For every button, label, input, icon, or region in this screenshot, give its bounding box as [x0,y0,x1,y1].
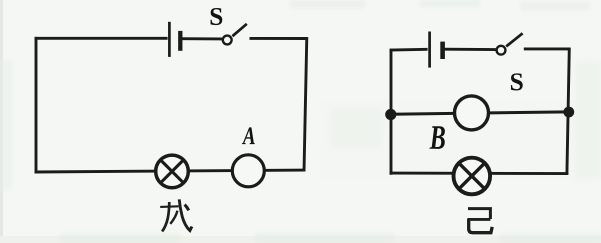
label A (meter designator) [242,127,255,144]
wire: middle branch with meter B [391,112,569,114]
lamp (right circuit, circle with X) [454,158,491,195]
label S (right switch) [511,73,523,90]
wire: right vertical side of left loop [304,37,307,171]
switch S (right): pivot circle [497,46,506,55]
wire: right vertical side of right loop [567,48,569,175]
wire: top-left segment from corner to battery [35,37,168,40]
node: right junction dot [563,107,574,118]
wire: battery to switch pivot [182,37,222,40]
wire: switch to top-right corner (right circuit) [524,47,570,50]
caption 戊 (drawn glyph) [160,199,192,231]
node: left junction dot [385,109,396,120]
battery cell: short thick (-) plate [178,31,182,51]
lamp (left circuit, circle with X) [156,155,189,188]
label B (meter designator) [429,126,444,149]
battery cell: long (+) plate (right circuit) [428,32,431,68]
battery cell: short thick (-) plate (right circuit) [440,42,445,59]
meter B (middle branch, empty circle) [455,96,489,130]
switch S (right): open blade [506,33,522,46]
wire: top-left segment from corner to battery [390,48,428,52]
wire: battery to switch pivot (right circuit) [444,48,496,51]
wire: bottom side of right loop [390,172,569,175]
wire: bottom side of left loop [35,170,306,172]
wire: left vertical side of left loop [35,37,38,174]
caption 己 (drawn glyph) [468,209,492,233]
switch S (left): pivot circle [223,36,232,45]
meter A (left circuit, empty circle) [232,155,264,187]
battery cell: long (+) plate [168,22,171,57]
switch S (left): open blade [232,24,246,36]
wire: left vertical side of right loop [390,49,393,175]
label S (left switch) [211,8,223,25]
wire: switch to top-right corner [250,37,308,40]
